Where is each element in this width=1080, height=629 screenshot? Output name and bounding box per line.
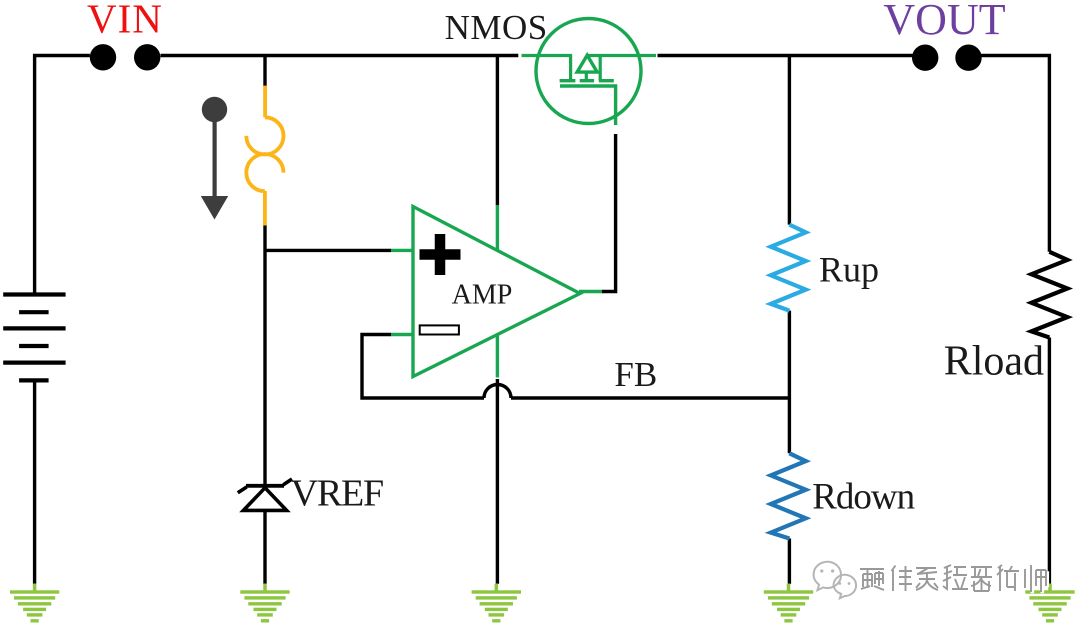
terminal dot VIN right [134,44,160,70]
NMOS body stem [585,72,588,81]
NMOS source pad [560,79,576,82]
wire Rup to Rdown through FB node [788,311,791,454]
NMOS body circle [536,19,641,124]
wire FB hop over vertical [484,385,511,399]
wire top rail down to Rup [788,54,791,225]
NMOS source lead left [522,56,571,81]
wire battery to ground [33,381,36,584]
wire NMOS gate to op-amp output [602,134,616,292]
wire op-amp bottom to ground [496,379,499,584]
NMOS drain lead right [587,54,656,57]
wire Rdown to ground [788,539,791,584]
op-amp U1 AMP [391,205,602,378]
wire VIN left corner to battery [35,56,90,295]
op-amp minus input stub [391,333,413,336]
NMOS body pad [580,79,594,82]
terminal dot VIN left [90,44,116,70]
svg-text:Rload: Rload [944,339,1044,385]
NMOS gate bar and lead [560,86,616,125]
svg-text:VREF: VREF [291,472,383,514]
wire zener to ground [263,510,266,583]
wire Rload to ground [1048,338,1051,584]
ground Rload [1025,584,1074,623]
wire branch down to current source [263,54,266,86]
NMOS drain contact [599,56,602,81]
svg-text:AMP: AMP [452,279,513,310]
ground zener [240,584,289,623]
NMOS body arrow [577,55,597,72]
terminal dot VOUT left [912,45,938,71]
svg-text:Rup: Rup [819,250,879,290]
resistor Rdown [771,453,806,538]
op-amp supply stub top [496,205,499,251]
NMOS transistor Q1 [522,19,657,126]
current source I1 [246,86,283,226]
svg-text:VOUT: VOUT [883,0,1005,44]
wire FB to Rup Rdown node [511,396,791,399]
op-amp plus input stub [391,249,413,252]
op-amp triangle [413,207,580,377]
svg-text:FB: FB [614,355,657,394]
terminal dot VOUT right [955,45,981,71]
watermark logo wechat [814,562,856,599]
zener diode VREF D1 [238,479,292,510]
ground op-amp [472,584,521,623]
current direction arrow [201,97,228,220]
watermark text 硬件系统架构师 [860,565,1047,593]
svg-text:VIN: VIN [87,0,163,41]
ground battery [10,584,59,623]
wire top rail VIN to NMOS [161,54,519,57]
wire current source to VREF zener [263,225,266,484]
svg-text:NMOS: NMOS [445,8,548,47]
op-amp minus sign [420,325,459,334]
wire top rail NMOS to VOUT left dot [658,54,913,57]
NMOS drain pad [599,79,614,82]
wire node to op-amp plus input [264,249,392,252]
resistor Rup [771,225,806,311]
ground Rdown [764,584,813,623]
battery B1 [3,295,65,381]
wire op-amp minus input feedback [362,335,484,399]
resistor Rload [1031,252,1067,338]
svg-text:Rdown: Rdown [812,476,914,517]
op-amp output stub [579,290,602,293]
wire VOUT right dot to corner down to Rload [981,56,1049,252]
wire top rail down to op-amp supply [496,54,499,205]
op-amp plus sign [420,234,461,275]
op-amp supply stub bottom [496,333,499,378]
